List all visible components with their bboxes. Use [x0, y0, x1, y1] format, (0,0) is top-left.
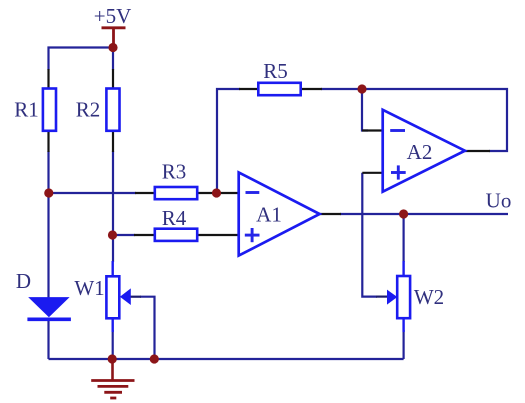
svg-text:R4: R4 — [162, 206, 187, 230]
wire R4 junction down to W1 top — [112, 235, 114, 262]
wire R4 junction to R4 pin — [113, 234, 135, 236]
resistor R2 — [106, 89, 119, 131]
wire A1 output to Uo — [340, 213, 508, 215]
pin A2 output — [465, 150, 490, 152]
wire node A1 inverting up to R5 row — [217, 89, 240, 193]
svg-text:R2: R2 — [76, 98, 101, 122]
resistor R1 — [43, 89, 56, 131]
pin R2 top — [112, 69, 114, 89]
pin R5 left — [239, 88, 259, 90]
A2 minus sign — [390, 129, 405, 132]
svg-text:D: D — [16, 269, 31, 293]
pin R4 right / A1 noninverting input — [197, 234, 239, 236]
svg-text:Uo: Uo — [486, 189, 512, 213]
wire left junction down to diode anode — [47, 193, 49, 298]
node R1 bottom junction — [44, 188, 53, 197]
potentiometer W1 — [106, 276, 119, 318]
svg-text:+5V: +5V — [94, 4, 132, 28]
node W1 wiper junction — [150, 354, 159, 363]
pin A2 inverting input — [362, 129, 383, 131]
A1 plus sign — [245, 234, 260, 237]
pin R1 top — [47, 69, 49, 89]
pin A2 noninverting input — [362, 172, 382, 174]
svg-text:W2: W2 — [414, 285, 444, 309]
pin R2 bottom — [112, 131, 114, 152]
wire output junction down to W2 top — [403, 214, 405, 262]
wire W2 bottom down to bottom rail — [403, 330, 405, 359]
pin R3 left — [135, 192, 155, 194]
op-amp A2 — [383, 110, 465, 192]
potentiometer W2 — [397, 276, 410, 318]
svg-text:R5: R5 — [263, 59, 288, 83]
pin R4 left — [134, 234, 155, 236]
pin W1 wiper — [131, 296, 142, 298]
A1 minus sign — [246, 191, 260, 194]
node ground junction — [108, 354, 117, 363]
node A1 inverting junction — [212, 188, 221, 197]
A2 plus sign — [391, 171, 406, 174]
wire left junction to R3 — [49, 192, 137, 194]
resistor R3 — [155, 187, 197, 199]
wire bottom rail — [49, 358, 404, 360]
svg-text:A1: A1 — [256, 203, 282, 227]
wire A2 noninverting input down to W2 wiper — [362, 173, 377, 297]
svg-text:W1: W1 — [74, 276, 104, 300]
wire R5 right pin to feedback junction — [321, 88, 362, 90]
W1 wiper arrow — [120, 288, 131, 305]
wire top rail from +5V node left to R1 column — [49, 48, 114, 71]
svg-text:R3: R3 — [162, 160, 187, 184]
pin R5 right — [301, 88, 322, 90]
resistor R4 — [155, 229, 197, 241]
ground — [111, 359, 114, 381]
pin A1 inverting input — [217, 192, 239, 194]
node R5/feedback junction — [357, 84, 366, 93]
svg-text:R1: R1 — [14, 98, 39, 122]
pin A1 output — [320, 213, 342, 215]
node output/W2 junction — [399, 209, 408, 218]
wire W1 bottom down to bottom rail — [112, 330, 114, 359]
op-amp A1 — [239, 172, 320, 255]
node R2/R4 junction — [108, 230, 117, 239]
wire R1 bottom to left junction — [47, 151, 49, 193]
wire R2 bottom through crossing to R4 junction — [112, 151, 114, 235]
wire +5V node down to R2 pin — [112, 48, 114, 71]
pin R3 right to junction — [197, 192, 217, 194]
wire feedback junction down to A2 inverting input — [362, 89, 368, 131]
svg-text:A2: A2 — [407, 140, 433, 164]
resistor R5 — [258, 83, 300, 95]
diode D — [29, 298, 68, 317]
W2 wiper arrow — [387, 290, 397, 305]
pin W2 wiper — [376, 296, 387, 298]
pin R1 bottom — [47, 131, 49, 152]
wire diode cathode down to bottom rail — [47, 320, 49, 359]
wire A2 feedback loop — [362, 89, 507, 151]
wire W1 wiper to right vertical down to rail — [140, 297, 155, 359]
node +5V junction — [108, 43, 117, 52]
